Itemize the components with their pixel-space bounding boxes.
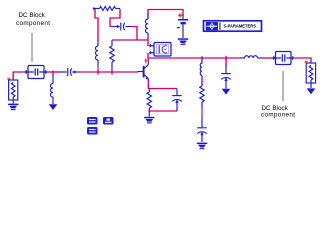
series capacitor C1: [60, 68, 81, 76]
BJT Q1: [138, 59, 149, 82]
feedback resistor R1 (horizontal): [94, 7, 121, 11]
wire: [201, 76, 203, 85]
S-PARAMETERS controller box: [204, 21, 262, 31]
leader line (left DC block): [31, 33, 33, 62]
bias resistor R2 (vertical): [110, 40, 114, 70]
svg-text:component: component: [261, 112, 295, 119]
series box component (collector branch): [149, 43, 171, 57]
emitter resistor R3: [147, 89, 151, 117]
emitter capacitor C3: [172, 89, 181, 112]
feedback capacitor C2: [114, 23, 133, 31]
junction at x=202: [201, 56, 203, 60]
wire: feedback right leg: [110, 9, 120, 27]
wire: DC block to C1, junction at x=53: [47, 71, 60, 73]
wire: DC block 2 to port P2: [294, 58, 312, 63]
wire: port P1 to DC block: [13, 72, 27, 80]
minus mark V1: [177, 27, 180, 29]
shunt capacitor C5: [225, 58, 227, 67]
ground (bar+wedge) under V1: [178, 38, 188, 45]
shunt inductor L1: [51, 75, 54, 104]
DC block component 2 (box with capacitor): [273, 52, 294, 65]
wire: base line with junctions: [80, 71, 138, 73]
collector inductor L3: [145, 13, 148, 38]
wire: feedback left leg: [95, 9, 98, 41]
wire: box to collector node: [147, 53, 149, 59]
pin mark P1: [7, 78, 10, 80]
small icon 3: [87, 127, 98, 135]
ground (bar+wedge): [197, 143, 207, 150]
plus mark V1: [178, 15, 182, 17]
ground (bar+wedge) under P1: [8, 104, 18, 111]
battery V1: [178, 14, 188, 38]
wire: [262, 57, 277, 59]
wire: collector output run: [148, 57, 241, 59]
pin mark P2: [305, 61, 308, 63]
wire: emitter node rails: [148, 80, 177, 89]
resistor R4: [200, 84, 204, 105]
ground arrow under L1: [49, 104, 58, 110]
svg-text:component: component: [16, 20, 50, 27]
wire: [201, 104, 203, 127]
VCC rail wire: [148, 10, 183, 18]
small icon 2: [103, 117, 114, 125]
ground arrow under P2: [307, 88, 316, 94]
svg-text:DC Block: DC Block: [19, 12, 46, 19]
wire: L3 to series box: [147, 38, 149, 47]
wire: C2 to node row: [133, 27, 138, 41]
DC block component 1 (box with capacitor): [25, 66, 48, 79]
small icon 1: [87, 117, 98, 125]
red current arrow at collector: [144, 58, 147, 61]
capacitor C4: [197, 128, 206, 142]
port P1 (Term, left): [9, 80, 18, 103]
port P2 (Term, right): [306, 63, 315, 88]
svg-text:S-PARAMETERS: S-PARAMETERS: [224, 24, 257, 29]
junction at x=226: [225, 56, 227, 61]
wire: node row y=40: [112, 39, 148, 41]
output inductor L5 (horizontal): [240, 56, 262, 58]
ground (bar+wedge) under emitter: [144, 117, 154, 124]
shunt inductor L2 (base leg): [95, 40, 98, 67]
leader line (right DC block): [282, 71, 284, 101]
branch inductor L4: [200, 58, 202, 76]
ground arrow: [222, 89, 231, 95]
